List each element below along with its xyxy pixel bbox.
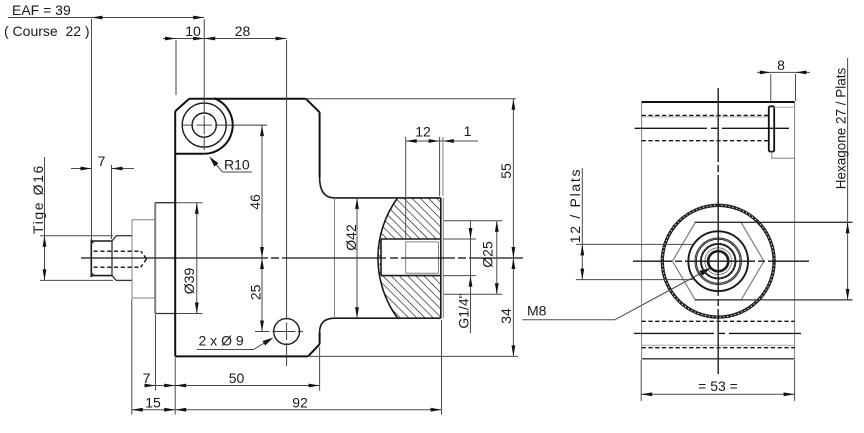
svg-text:Ø39: Ø39 — [181, 268, 197, 295]
svg-text:Ø25: Ø25 — [479, 241, 495, 268]
svg-text:Hexagone 27 / Plats: Hexagone 27 / Plats — [833, 67, 848, 189]
svg-text:12 / Plats: 12 / Plats — [567, 168, 583, 243]
svg-text:34: 34 — [498, 308, 514, 324]
svg-text:50: 50 — [229, 370, 245, 386]
svg-text:8: 8 — [777, 57, 785, 73]
svg-text:7: 7 — [98, 153, 106, 169]
svg-text:7: 7 — [143, 370, 151, 386]
svg-text:10: 10 — [185, 23, 201, 39]
svg-text:55: 55 — [498, 163, 514, 179]
svg-text:M8: M8 — [527, 303, 547, 319]
svg-text:2 x Ø 9: 2 x Ø 9 — [199, 333, 244, 349]
svg-text:28: 28 — [235, 23, 251, 39]
svg-text:G1/4": G1/4" — [456, 293, 472, 328]
svg-text:( Course 22 ): ( Course 22 ) — [4, 23, 90, 39]
svg-text:15: 15 — [145, 394, 161, 410]
svg-text:= 53 =: = 53 = — [698, 378, 738, 394]
svg-text:25: 25 — [247, 284, 263, 300]
svg-text:92: 92 — [292, 394, 308, 410]
svg-text:EAF = 39: EAF = 39 — [12, 2, 71, 18]
svg-text:46: 46 — [247, 194, 263, 210]
svg-text:R10: R10 — [224, 157, 250, 173]
svg-text:12: 12 — [415, 124, 431, 140]
svg-text:Ø42: Ø42 — [343, 224, 359, 251]
svg-text:Tige Ø16: Tige Ø16 — [30, 164, 46, 234]
svg-text:1: 1 — [464, 123, 472, 139]
